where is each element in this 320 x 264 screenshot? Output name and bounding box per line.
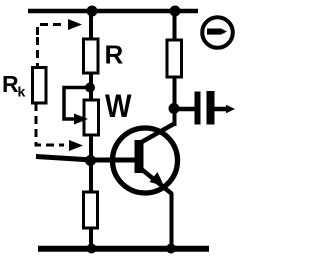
transistor Q1 body bbox=[113, 128, 178, 193]
svg-text:k: k bbox=[18, 84, 26, 100]
wire: R to potentiometer bbox=[89, 73, 93, 101]
capacitor C left plate bbox=[195, 92, 201, 125]
node: R / wiper junction bbox=[85, 83, 95, 93]
wire: potentiometer to base junction to divider resistor bbox=[89, 135, 93, 193]
wiper arrowhead bbox=[74, 114, 88, 125]
wire: lower resistor to ground rail bbox=[89, 228, 93, 249]
wire: collector resistor to transistor bbox=[173, 77, 177, 126]
bottom ground rail bbox=[38, 246, 209, 252]
dashed control line: Rk down to corner bbox=[36, 103, 64, 145]
node: base junction bbox=[85, 155, 96, 166]
node: rail / collector-resistor junction bbox=[170, 6, 181, 17]
transistor emitter lead bbox=[140, 168, 172, 194]
node: collector / capacitor junction bbox=[169, 103, 180, 114]
wire: emitter to bottom rail bbox=[170, 193, 174, 249]
emitter arrowhead bbox=[150, 172, 165, 186]
svg-text:R: R bbox=[2, 71, 19, 97]
capacitor C right plate bbox=[207, 91, 215, 125]
transistor collector lead bbox=[139, 124, 175, 144]
dashed control line: top corner and horizontal bbox=[38, 25, 65, 36]
node: rail / divider junction bbox=[87, 6, 98, 17]
output arrowhead bbox=[226, 105, 235, 113]
lower divider resistor bbox=[84, 192, 98, 228]
resistor Rk bbox=[33, 68, 47, 104]
svg-text:R: R bbox=[105, 40, 124, 70]
arrowhead of top dashed line bbox=[68, 19, 82, 30]
wire: junction to capacitor bbox=[176, 107, 196, 112]
node: emitter / bottom rail junction bbox=[166, 244, 176, 254]
negative supply terminal bbox=[202, 17, 233, 48]
wire: rail to resistor R bbox=[89, 11, 93, 41]
transistor base bar bbox=[135, 140, 144, 173]
wire: input/base line bbox=[36, 157, 137, 161]
resistor R bbox=[84, 39, 99, 73]
wire: capacitor output lead bbox=[215, 107, 230, 112]
potentiometer W body bbox=[84, 100, 99, 135]
node: divider / bottom rail junction bbox=[87, 244, 97, 254]
collector resistor bbox=[167, 40, 182, 77]
dashed control line: vertical to Rk bbox=[36, 37, 39, 67]
top supply rail bbox=[28, 9, 198, 14]
wiper arm of W bbox=[64, 88, 89, 120]
arrowhead of lower dashed line bbox=[69, 140, 83, 151]
svg-text:W: W bbox=[105, 88, 132, 124]
wire: rail to collector resistor bbox=[173, 11, 177, 41]
